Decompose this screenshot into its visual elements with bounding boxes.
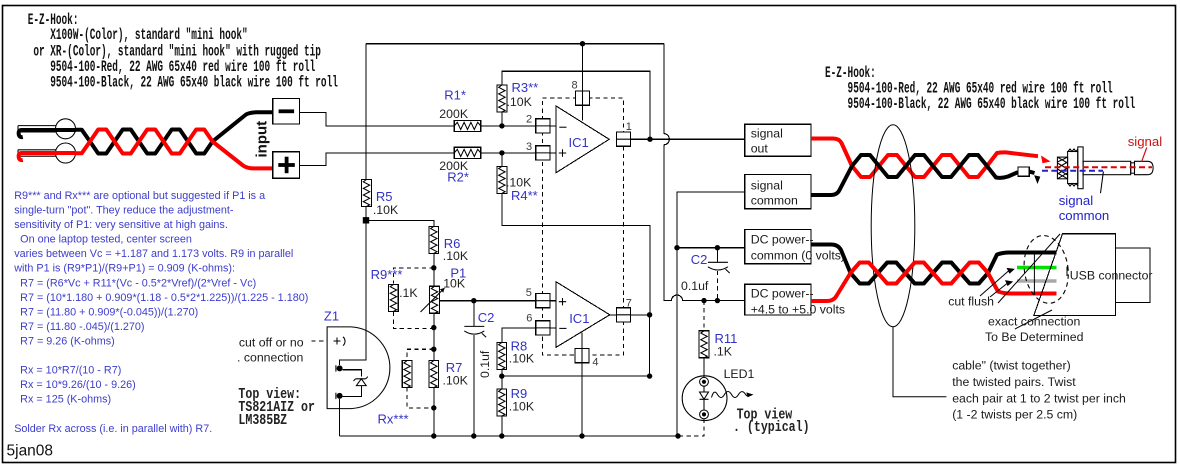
green wire in USB xyxy=(1017,266,1057,270)
dashed inspection ellipse xyxy=(1020,233,1073,307)
leader cut flush to green wire xyxy=(980,271,1009,297)
red dashed signal line through plug xyxy=(1045,166,1152,168)
dashed IC1 package outline xyxy=(543,98,624,355)
note: Z1 part numbers xyxy=(238,386,301,403)
node: junction top wire / pin8 stub xyxy=(580,41,585,46)
resistor R6 body xyxy=(429,226,439,253)
wire: signal common box to common rail down to bus xyxy=(677,192,745,436)
audio plug tip xyxy=(1135,161,1154,174)
potentiometer P1 wiper arrow xyxy=(421,288,445,312)
svg-text:.10K: .10K xyxy=(509,352,535,366)
audio plug flange xyxy=(1078,147,1083,189)
node: op2 output junction xyxy=(647,312,652,317)
svg-text:.10K: .10K xyxy=(443,374,469,388)
svg-text:signal: signal xyxy=(751,179,783,193)
svg-text:.1K: .1K xyxy=(399,286,418,300)
svg-text:5jan08: 5jan08 xyxy=(7,443,54,460)
op-amp U1A plus input symbol xyxy=(559,149,566,156)
wire: R4 bottom down, right, down to op2 output node xyxy=(502,153,650,315)
twisted pair black wire (signal common to plug) xyxy=(811,155,1018,195)
wire: top V+ wire xyxy=(366,43,664,45)
svg-text:Solder Rx across (i.e. in para: Solder Rx across (i.e. in parallel with)… xyxy=(14,423,212,435)
blue dashed signal common line xyxy=(1042,170,1103,172)
node: R4 top on pin3 wire xyxy=(499,150,504,155)
svg-text:signal: signal xyxy=(751,127,783,141)
capacitor C2 (left) top lead xyxy=(473,301,475,327)
svg-text:R9***: R9*** xyxy=(371,267,403,282)
minus symbol xyxy=(279,109,295,113)
svg-text:+4.5 to +5.0 volts: +4.5 to +5.0 volts xyxy=(751,302,845,316)
svg-text:signal: signal xyxy=(1059,193,1094,208)
svg-text:200K: 200K xyxy=(439,159,469,173)
svg-text:Rx = 10*9.26/(10 - 9.26): Rx = 10*9.26/(10 - 9.26) xyxy=(14,379,136,391)
node: P1 bottom xyxy=(431,325,436,330)
wire: rail from junction down into Z1 pin 2 xyxy=(340,220,366,365)
svg-text:To Be Determined: To Be Determined xyxy=(985,330,1084,344)
svg-text:R1*: R1* xyxy=(444,88,466,103)
note: blue explanation paragraph xyxy=(13,190,308,435)
note: E-Z-Hook text block top-left xyxy=(28,10,79,28)
black leader to signal common xyxy=(1101,172,1104,194)
svg-text:7: 7 xyxy=(626,297,632,309)
svg-text:cable" (twist together): cable" (twist together) xyxy=(952,359,1071,373)
twisted pair red wire (DC plus to USB) xyxy=(811,263,1057,302)
svg-text:with P1 is (R9*P1)/(R9+P1) = 0: with P1 is (R9*P1)/(R9+P1) = 0.909 (K-oh… xyxy=(13,263,235,275)
svg-text:R7 = 9.26 (K-ohms): R7 = 9.26 (K-ohms) xyxy=(14,336,115,348)
dashed wire: LED cathode to ground bus xyxy=(678,419,704,436)
pin box 5 xyxy=(536,294,550,308)
svg-text:Rx***: Rx*** xyxy=(378,412,409,427)
wire: R11 bottom to LED anode pad xyxy=(703,358,705,378)
red mini hook handle outline xyxy=(18,150,56,156)
signal common box xyxy=(745,175,811,209)
twisted pair red wire (hooks to input box) xyxy=(75,130,273,169)
op-amp U1B plus input symbol xyxy=(559,298,566,305)
capacitor C2 (right) plates xyxy=(708,261,728,263)
signal out box xyxy=(745,124,811,156)
svg-text:cut flush: cut flush xyxy=(948,294,994,308)
wire: input plus box to R2 to pin 3 xyxy=(299,153,556,166)
wire: left vertical rail from top wire down to R5 xyxy=(365,44,367,180)
svg-text:C2: C2 xyxy=(691,252,708,267)
svg-text:USB connector: USB connector xyxy=(1070,268,1153,282)
wire: R5 bottom to junction, across to R6, down chain to R7 and bus xyxy=(366,206,434,436)
black mini hook bulb xyxy=(56,119,76,139)
LED1 light squiggle arrow xyxy=(712,392,750,398)
svg-text:4: 4 xyxy=(592,357,598,369)
svg-text:exact connection: exact connection xyxy=(988,315,1080,329)
capacitor C2 (right) top lead xyxy=(716,248,718,263)
leader cut flush to gray wire xyxy=(990,284,1007,298)
op-amp U1B minus input symbol xyxy=(559,327,566,329)
LED1 cathode pad xyxy=(700,410,709,419)
svg-text:IC1: IC1 xyxy=(569,311,589,326)
pin box 1 xyxy=(616,132,630,146)
capacitor C2 (right) dashed bottom lead xyxy=(716,271,718,301)
black hook wire with curled tip xyxy=(19,130,76,137)
op-amp U1B triangle xyxy=(556,282,610,348)
svg-text:the twisted pairs. Twist: the twisted pairs. Twist xyxy=(952,375,1076,389)
node: C2 tap on wiper wire xyxy=(471,298,476,303)
audio plug threaded bushing xyxy=(1068,152,1078,184)
svg-text:R7 = (11.80 -.045)/(1.270): R7 = (11.80 -.045)/(1.270) xyxy=(14,321,144,333)
svg-text:input: input xyxy=(254,121,271,158)
resistor R2 body xyxy=(454,147,481,158)
transistor Z1 package outline (TO-92 top view) xyxy=(327,327,390,409)
USB connector body xyxy=(1034,234,1116,316)
svg-text:. (typical): . (typical) xyxy=(733,419,810,436)
svg-text:.10K: .10K xyxy=(373,203,399,217)
svg-text:5: 5 xyxy=(526,287,532,299)
tick before USB label xyxy=(1066,267,1068,277)
svg-text:LED1: LED1 xyxy=(724,367,755,381)
svg-text:common: common xyxy=(1059,208,1110,223)
node: C2 bottom tap on V+ wire xyxy=(715,298,720,303)
pin box 3 xyxy=(536,146,550,160)
cable bundle ellipse xyxy=(871,125,915,327)
wire: Z1 pin2 to zener cathode xyxy=(342,370,361,377)
resistor R11 body xyxy=(699,331,709,358)
svg-text:3: 3 xyxy=(526,141,532,153)
svg-text:200K: 200K xyxy=(439,107,469,121)
twisted pair black wire (DC common to USB) xyxy=(811,245,1057,284)
node: square junction R5 bottom xyxy=(363,217,369,223)
svg-text:R3**: R3** xyxy=(512,80,539,95)
input plus terminal box xyxy=(273,152,300,179)
svg-text:C2: C2 xyxy=(478,310,495,325)
svg-text:R7 = (10*1.180 + 0.909*(1.18 -: R7 = (10*1.180 + 0.909*(1.18 - 0.5*2*1.2… xyxy=(14,292,308,304)
audio plug tip insulator ring xyxy=(1131,163,1135,173)
resistor R1 body xyxy=(454,120,481,131)
svg-text:0.1uf: 0.1uf xyxy=(681,279,709,293)
svg-text:0.1uf: 0.1uf xyxy=(478,350,492,378)
svg-text:cut off or no: cut off or no xyxy=(239,335,304,349)
svg-text:.1K: .1K xyxy=(714,345,733,359)
svg-text:Rx = 125 (K-ohms): Rx = 125 (K-ohms) xyxy=(14,394,111,406)
svg-text:1: 1 xyxy=(626,121,632,133)
wire: input minus box to R1 to pin 2 xyxy=(299,112,556,126)
svg-text:10K: 10K xyxy=(443,277,466,291)
wire: V+ rail down right side with hop over signal wire, to DC power + box xyxy=(664,44,745,301)
dashed no-connect wire to Z1 pin 1 xyxy=(312,340,328,342)
DC power common box xyxy=(745,229,811,263)
svg-text:.10K: .10K xyxy=(443,249,469,263)
long diagonal leader (cut flush) xyxy=(998,234,1060,303)
svg-text:R7 = (R6*Vc + R11*(Vc - 0.5*2*: R7 = (R6*Vc + R11*(Vc - 0.5*2*Vref)/(2*V… xyxy=(14,277,256,289)
resistor R4 body xyxy=(497,166,507,193)
LED1 anode pad xyxy=(700,377,709,386)
node: common rail T junction xyxy=(674,245,679,250)
wire: feedback node right and up to op2 output xyxy=(502,315,650,376)
USB connector tail xyxy=(1116,248,1151,303)
node: feedback corner junction xyxy=(647,373,652,378)
pin box 2 xyxy=(536,119,550,133)
svg-text:varies between Vc = +1.187 and: varies between Vc = +1.187 and 1.173 vol… xyxy=(14,248,293,260)
Z1 pin 3 pad xyxy=(337,393,343,399)
wire: zener anode to Z1 pin3, pin3 down to bus xyxy=(340,386,362,436)
resistor R5 body xyxy=(362,180,372,207)
capacitor C2 (left) plates xyxy=(464,325,484,327)
red mini hook bulb xyxy=(56,143,76,163)
input minus terminal box xyxy=(273,99,300,125)
leader to exact connection xyxy=(1015,310,1052,329)
svg-text:On one laptop tested, center s: On one laptop tested, center screen xyxy=(14,234,192,246)
svg-text:. connection: . connection xyxy=(237,351,303,365)
leader from cable ellipse to caption xyxy=(893,327,946,397)
node: R3 bottom on pin2 wire xyxy=(499,123,504,128)
wire: DC power common box to common rail xyxy=(677,247,745,249)
wire: R8 bottom to R9 top and to bus xyxy=(501,369,503,436)
svg-text:6: 6 xyxy=(526,313,532,325)
node: R8/R9 feedback node xyxy=(499,373,504,378)
LED1 package circle (top view) xyxy=(682,376,727,421)
svg-text:9504-100-Black, 22 AWG 65x40 b: 9504-100-Black, 22 AWG 65x40 black wire … xyxy=(28,73,338,91)
resistor R9*** body xyxy=(389,284,399,311)
black mini hook handle outline xyxy=(18,126,56,132)
twisted pair red wire (signal out to plug) xyxy=(811,139,1038,178)
wire: op-amp1 output to signal out box xyxy=(631,138,745,140)
wire stubs through pin boxes xyxy=(536,91,631,363)
twisted pair black wire (hooks to input box) xyxy=(75,112,273,153)
gray wire in USB xyxy=(1017,279,1057,283)
audio plug shaft xyxy=(1083,161,1131,174)
svg-text:Z1: Z1 xyxy=(324,309,339,324)
note: E-Z-Hook text block top-right xyxy=(825,63,876,81)
pin box 4 xyxy=(575,349,589,363)
svg-text:.10K: .10K xyxy=(509,400,535,414)
Z1 pin 1 arc mark xyxy=(343,337,345,346)
svg-text:Rx = 10*R7/(10 - R7): Rx = 10*R7/(10 - R7) xyxy=(14,365,121,377)
svg-text:each pair at 1 to 2 twist per: each pair at 1 to 2 twist per inch xyxy=(952,391,1126,405)
svg-text:R9*** and Rx*** are optional b: R9*** and Rx*** are optional but suggest… xyxy=(14,190,265,202)
pin box 8 xyxy=(575,91,589,105)
DC power plus box xyxy=(745,284,811,315)
svg-text:DC power--: DC power-- xyxy=(751,233,814,247)
node: Rx tap xyxy=(431,347,436,352)
potentiometer P1 body xyxy=(430,286,440,313)
svg-text:common: common xyxy=(751,194,798,208)
node: bus dots xyxy=(431,433,436,438)
wire: pin 4 ground stub down to bus xyxy=(581,333,583,436)
resistor R7 body xyxy=(429,361,439,388)
wire: ground bus xyxy=(340,435,678,437)
pin box 6 xyxy=(536,321,550,335)
red leader line xyxy=(1142,148,1147,163)
svg-text:IC1: IC1 xyxy=(569,135,589,150)
svg-text:8: 8 xyxy=(572,80,578,92)
Z1 pin 1 plus symbol xyxy=(334,338,341,345)
pin box 7 xyxy=(616,308,630,322)
svg-text:signal: signal xyxy=(1128,134,1163,149)
dashed wires to optional resistor R9*** xyxy=(393,268,433,329)
dashed wires to optional resistor Rx*** xyxy=(407,349,434,408)
node: R6 bottom / P1 top xyxy=(431,265,436,270)
capacitor C2 (left) bottom lead to bus xyxy=(473,335,475,436)
plug rear connector piece on black wire xyxy=(1018,167,1029,176)
svg-text:single-turn "pot". They reduce: single-turn "pot". They reduce the adjus… xyxy=(14,205,234,217)
wire: op-amp2 output pin 7 xyxy=(610,314,650,316)
black arrowhead (plug sleeve) xyxy=(1034,175,1040,184)
svg-text:2: 2 xyxy=(526,114,532,126)
svg-text:R5: R5 xyxy=(376,189,393,204)
svg-text:.10K: .10K xyxy=(506,175,532,189)
audio plug crosshatched section xyxy=(1057,157,1067,179)
resistor Rx*** body xyxy=(402,361,412,388)
wire: pin8 supply stub xyxy=(582,44,584,121)
svg-text:out: out xyxy=(751,142,769,156)
svg-text:(1 -2 twists per 2.5 cm): (1 -2 twists per 2.5 cm) xyxy=(952,408,1077,422)
note: LED top view caption xyxy=(737,406,793,423)
LED1 diode symbol xyxy=(700,386,709,410)
red hook wire with curled tip xyxy=(19,153,76,160)
Z1 pin 2 pad xyxy=(337,365,343,371)
op-amp U1A minus input symbol xyxy=(559,126,566,128)
wire: pin 6 to R8 top xyxy=(502,328,556,343)
svg-text:9504-100-Black, 22 AWG 65x40 b: 9504-100-Black, 22 AWG 65x40 black wire … xyxy=(825,95,1135,113)
svg-text:R4**: R4** xyxy=(511,188,538,203)
cut flush vertical line xyxy=(1033,252,1035,295)
resistor R3 body xyxy=(497,85,507,112)
node: R7 bottom / Rx return xyxy=(431,405,436,410)
svg-text:sensitivity of P1: very sensit: sensitivity of P1: very sensitive at hig… xyxy=(14,219,228,231)
node: R11 tap on V+ wire xyxy=(701,298,706,303)
svg-text:R7 = (11.80 + 0.909*(-0.045))/: R7 = (11.80 + 0.909*(-0.045))/(1.270) xyxy=(14,306,198,318)
svg-text:DC power--: DC power-- xyxy=(751,287,814,301)
wire: P1 wiper to pin 5 xyxy=(439,300,556,302)
wire: R3 bottom lead to pin2 wire xyxy=(501,112,503,126)
node: C2 top tap xyxy=(715,245,720,250)
svg-text:LM385BZ: LM385BZ xyxy=(238,412,287,429)
dashed lead V+ to R11 xyxy=(703,301,705,331)
resistor R8 body xyxy=(497,342,507,369)
node: output1 junction xyxy=(647,137,652,142)
op-amp U1A triangle xyxy=(556,106,609,173)
red arrowhead (signal wire end) xyxy=(1041,156,1051,164)
zener diode inside Z1 xyxy=(354,377,368,381)
svg-text:common (0 volts): common (0 volts) xyxy=(751,249,845,263)
resistor R9 body xyxy=(497,389,507,416)
plus symbol xyxy=(278,163,295,167)
svg-text:.10K: .10K xyxy=(507,95,533,109)
wire: feedback R3 top to output node xyxy=(502,71,650,139)
